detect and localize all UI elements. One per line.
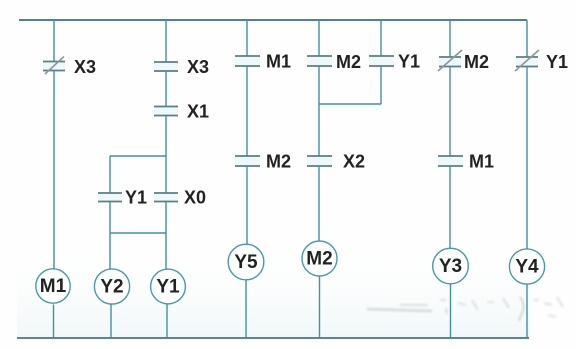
wire column5 seg2: [318, 66, 320, 156]
wire column4 bottom: [245, 280, 247, 338]
svg-text:Y1: Y1: [125, 188, 147, 208]
svg-text:Y1: Y1: [546, 52, 568, 72]
coil Y4: [509, 249, 544, 284]
svg-text:Y4: Y4: [515, 257, 539, 278]
wire column5 bottom: [319, 276, 321, 338]
svg-text:M2: M2: [336, 52, 361, 72]
wire column3 seg3: [165, 116, 167, 194]
wire column2 upper: [109, 156, 111, 193]
wire column2 lower: [109, 202, 111, 234]
svg-text:X1: X1: [187, 102, 209, 122]
contact M2 NO (column5): [307, 52, 361, 72]
coil Y3: [433, 248, 469, 284]
svg-text:M1: M1: [266, 52, 291, 72]
contact M2 NC (column7): [438, 50, 489, 72]
svg-text:Y1: Y1: [156, 277, 180, 298]
svg-text:X3: X3: [187, 57, 209, 77]
svg-text:M2: M2: [266, 152, 291, 172]
wire column4 top: [246, 20, 248, 56]
svg-text:Y5: Y5: [234, 252, 258, 273]
wire column1 top: [53, 20, 55, 61]
svg-text:M2: M2: [464, 52, 489, 72]
svg-text:X2: X2: [343, 152, 365, 172]
contact M1 NO (column4): [235, 52, 291, 72]
wire column1 middle: [53, 71, 55, 270]
svg-text:Y3: Y3: [439, 256, 462, 277]
contact M1 NO (column7): [438, 152, 494, 172]
svg-text:M1: M1: [40, 276, 67, 297]
svg-text:M1: M1: [469, 152, 494, 172]
bottom rail: [17, 337, 529, 339]
top rail: [19, 19, 527, 21]
wire column7 top: [449, 20, 451, 57]
wire column4 seg3: [246, 166, 248, 244]
contact X3 NC (column1): [43, 57, 96, 78]
coil Y5: [228, 244, 264, 280]
contact Y1 NO (column2): [98, 188, 147, 208]
wire column7 seg2: [449, 67, 451, 157]
wire column3 bottom: [166, 304, 168, 338]
wire column5 top: [318, 20, 320, 56]
wire column6 lower: [380, 66, 382, 104]
contact X2 NO (column5): [307, 152, 365, 172]
wire column7 seg3: [449, 166, 451, 248]
wire column4 seg2: [246, 66, 248, 156]
wire column5 seg3: [318, 166, 320, 241]
wire branch top (column2-column3): [110, 155, 166, 157]
wire branch bottom (column2-column3): [110, 232, 166, 234]
wire column7 bottom: [450, 284, 452, 338]
svg-text:Y1: Y1: [398, 52, 420, 72]
wire column3 seg4: [165, 202, 167, 270]
contact Y1 NC (column8): [515, 50, 568, 72]
contact M2 NO (column4): [235, 152, 291, 172]
svg-text:Y2: Y2: [100, 277, 123, 298]
wire column3 top: [165, 20, 167, 62]
wire column8 middle: [526, 67, 528, 250]
contact X1 NO (column3): [154, 102, 209, 122]
wire column3 seg2: [165, 71, 167, 107]
wire column1 bottom: [53, 305, 55, 339]
wire column2 bottom: [110, 304, 112, 338]
coil Y1: [151, 269, 186, 304]
svg-text:X3: X3: [74, 57, 96, 77]
contact X0 NO (column3): [154, 188, 206, 208]
background tint above bottom rail: [17, 240, 530, 337]
svg-text:M2: M2: [306, 249, 332, 270]
wire join column6 to column5: [319, 103, 381, 105]
wire column8 bottom: [526, 284, 528, 338]
watermark remnant: [367, 297, 563, 321]
wire column6 top: [380, 20, 382, 56]
coil M1: [36, 269, 70, 303]
wire column2 to coil: [109, 233, 111, 269]
contact X3 NO (column3): [154, 57, 209, 77]
coil M2: [302, 241, 337, 276]
wire column8 top: [526, 20, 528, 57]
contact Y1 NO (column6): [369, 52, 420, 72]
svg-text:X0: X0: [184, 188, 206, 208]
coil Y2: [94, 269, 129, 304]
